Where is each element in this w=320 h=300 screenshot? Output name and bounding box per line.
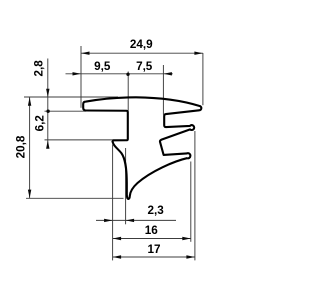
svg-text:2,3: 2,3	[147, 204, 164, 217]
svg-text:20,8: 20,8	[14, 135, 27, 158]
svg-text:6,2: 6,2	[34, 115, 47, 132]
svg-text:2,8: 2,8	[33, 60, 46, 77]
svg-text:16: 16	[145, 224, 159, 237]
svg-text:7,5: 7,5	[136, 60, 153, 73]
svg-text:9,5: 9,5	[94, 60, 111, 73]
svg-text:17: 17	[147, 243, 160, 256]
svg-text:24,9: 24,9	[130, 38, 153, 51]
